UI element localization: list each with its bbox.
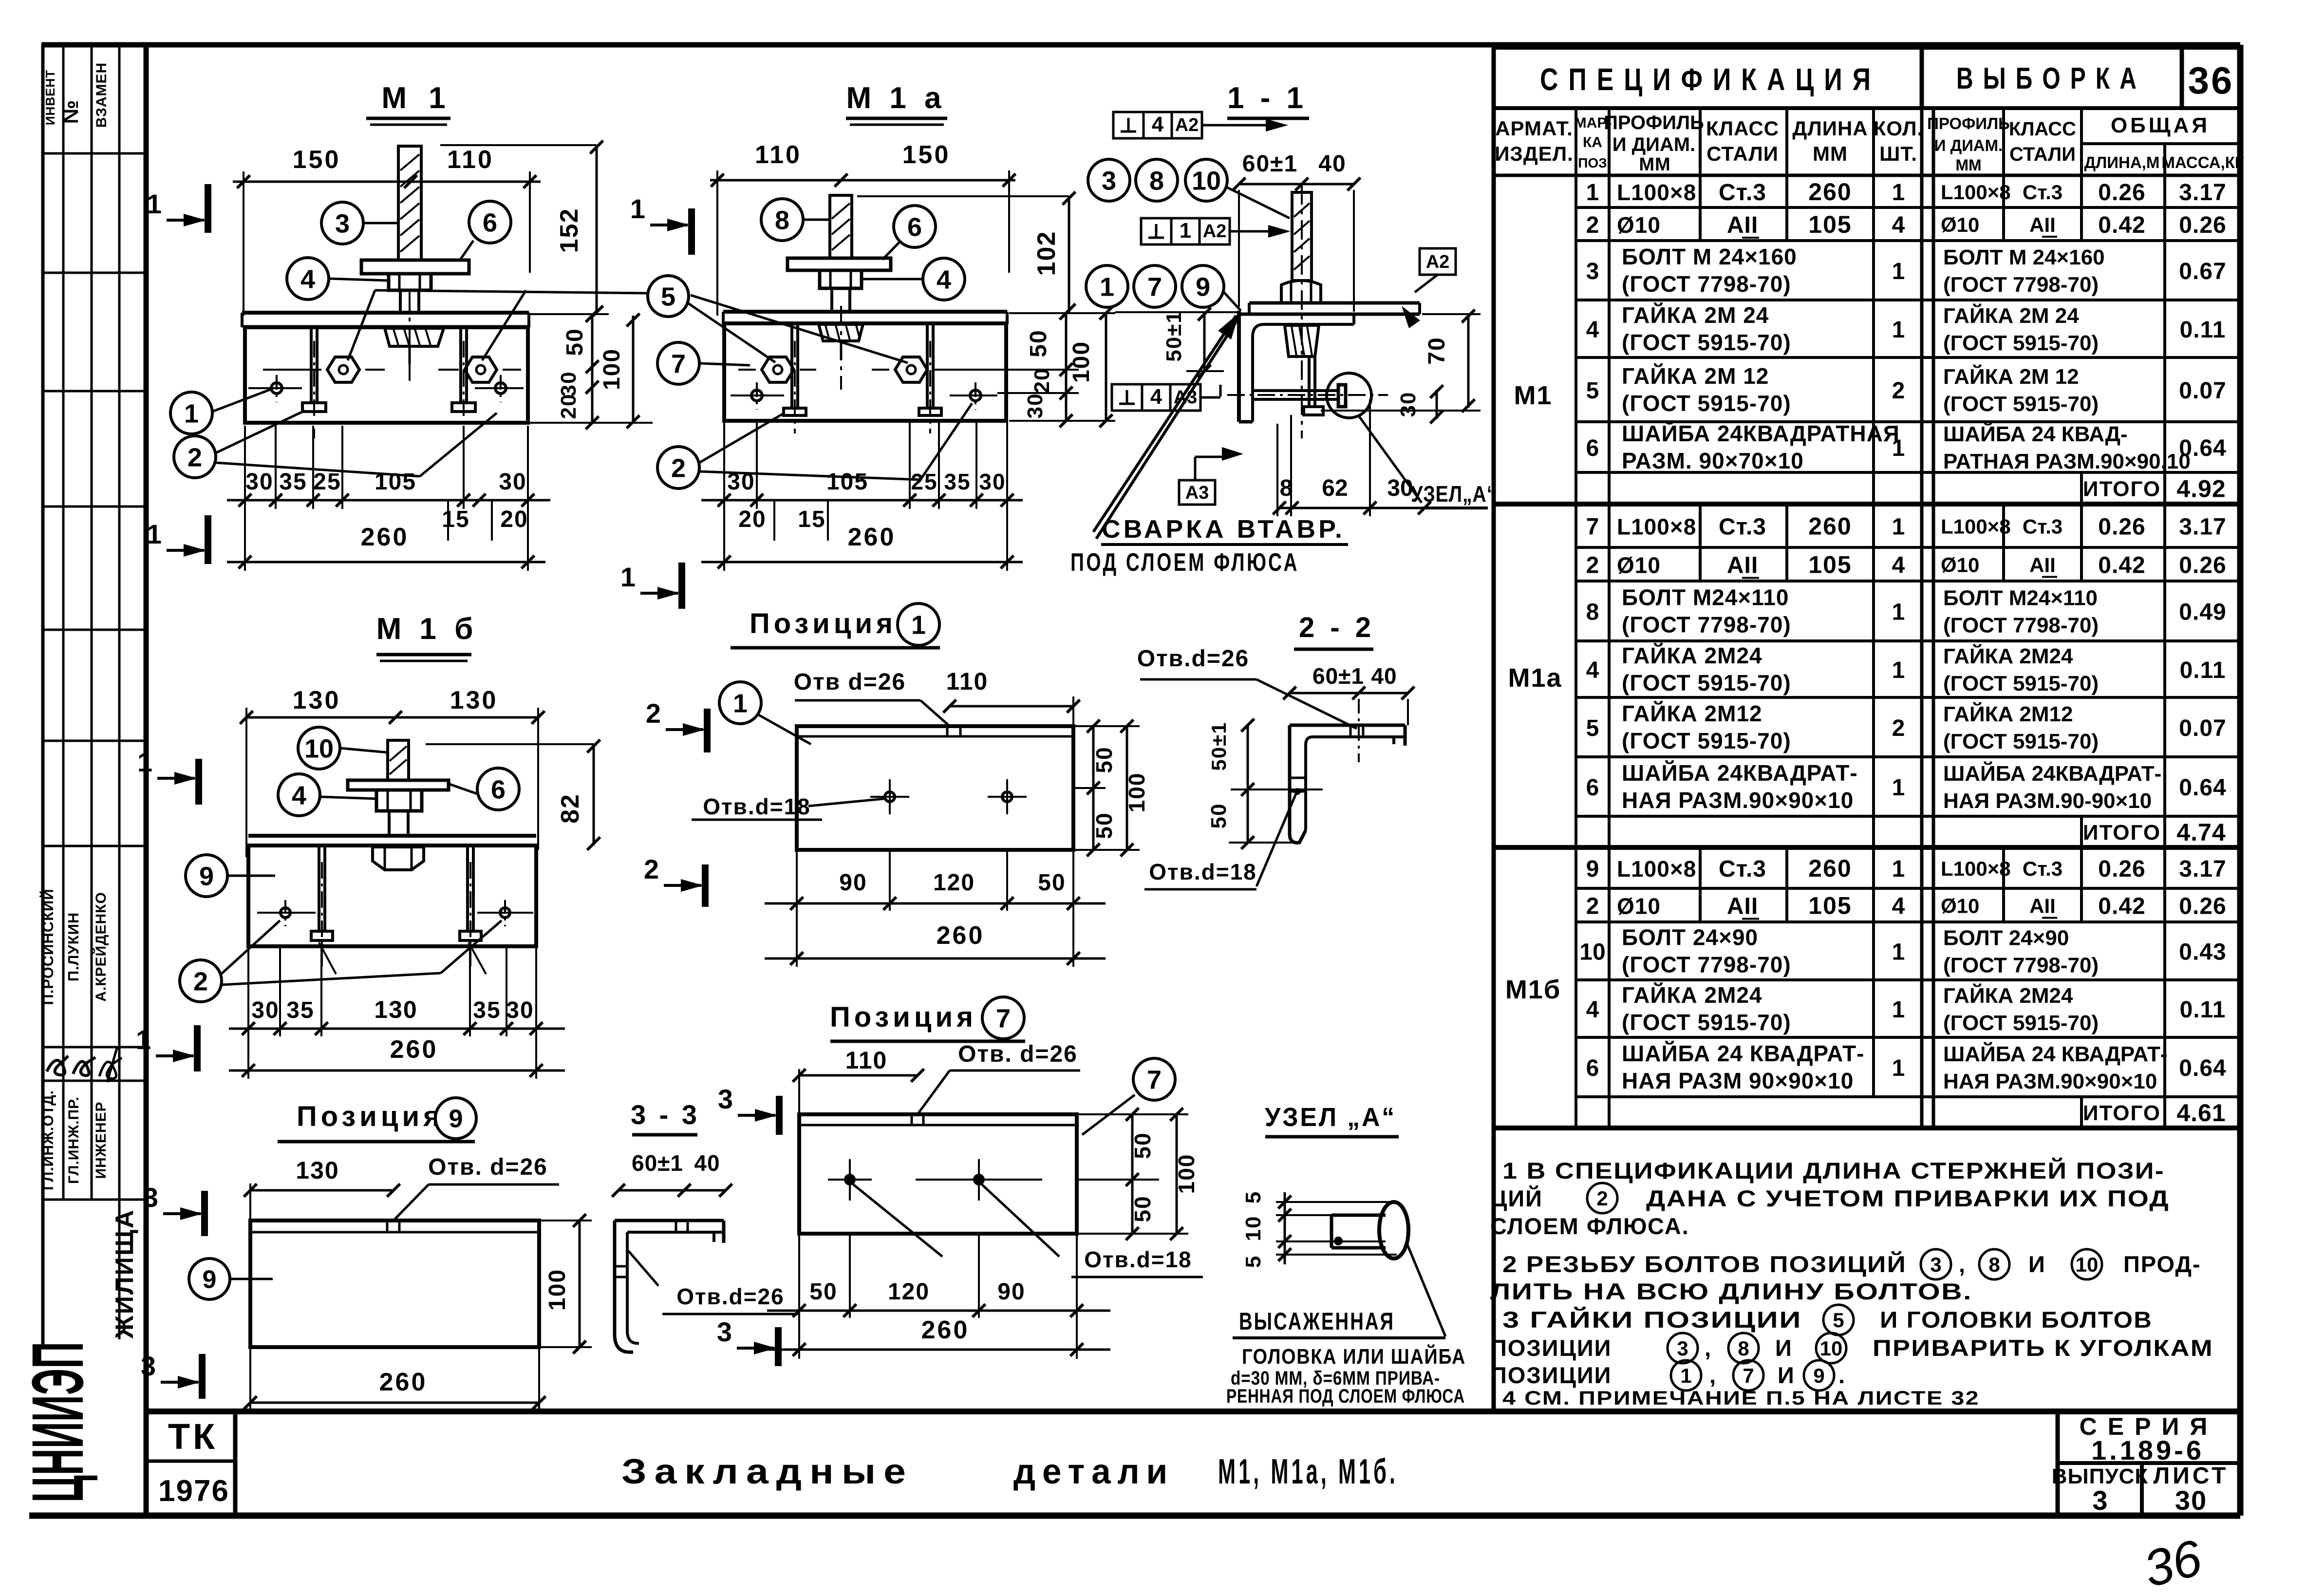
svg-text:4: 4 [1152, 113, 1164, 136]
svg-text:110: 110 [845, 1047, 888, 1074]
svg-text:Ст.3: Ст.3 [1719, 514, 1766, 540]
svg-text:30: 30 [557, 371, 581, 397]
svg-text:4 СМ. ПРИМЕЧАНИЕ П.5 НА ЛИСТЕ: 4 СМ. ПРИМЕЧАНИЕ П.5 НА ЛИСТЕ 32 [1502, 1388, 1980, 1409]
svg-text:30: 30 [1396, 392, 1420, 417]
svg-text:5: 5 [661, 282, 675, 311]
svg-text:100: 100 [1174, 1154, 1199, 1194]
svg-text:60±1: 60±1 [632, 1150, 683, 1176]
svg-text:6: 6 [1586, 435, 1599, 461]
svg-text:(ГОСТ 5915-70): (ГОСТ 5915-70) [1943, 331, 2099, 355]
svg-text:,: , [1959, 1251, 1966, 1277]
svg-text:Ст.3: Ст.3 [1719, 856, 1766, 882]
svg-text:(ГОСТ 7798-70): (ГОСТ 7798-70) [1943, 273, 2099, 297]
svg-text:1: 1 [733, 689, 748, 718]
svg-text:Отв d=26: Отв d=26 [794, 669, 906, 695]
svg-text:ПРОФИЛЬ: ПРОФИЛЬ [1927, 114, 2010, 132]
svg-text:15: 15 [442, 507, 469, 532]
svg-text:40: 40 [694, 1150, 720, 1176]
svg-text:ВЫСАЖЕННАЯ: ВЫСАЖЕННАЯ [1239, 1308, 1395, 1335]
svg-text:5: 5 [1241, 1191, 1265, 1203]
svg-text:0.64: 0.64 [2179, 1055, 2226, 1081]
svg-text:30: 30 [245, 469, 273, 495]
svg-text:Ø10: Ø10 [1941, 554, 1979, 577]
svg-text:105: 105 [1808, 551, 1852, 579]
svg-text:СВАРКА ВТАВР.: СВАРКА ВТАВР. [1102, 515, 1345, 544]
svg-text:2: 2 [193, 967, 208, 996]
svg-text:5: 5 [1586, 378, 1599, 404]
svg-text:2 РЕЗЬБУ БОЛТОВ ПОЗИЦИЙ: 2 РЕЗЬБУ БОЛТОВ ПОЗИЦИЙ [1502, 1251, 1907, 1277]
svg-text:АII: АII [2029, 213, 2056, 236]
svg-text:ШАЙБА 24КВАДРАТ-: ШАЙБА 24КВАДРАТ- [1622, 760, 1858, 786]
svg-text:ПРИВАРИТЬ К УГОЛКАМ: ПРИВАРИТЬ К УГОЛКАМ [1873, 1335, 2213, 1361]
svg-text:ИЗДЕЛ.: ИЗДЕЛ. [1495, 142, 1574, 165]
svg-text:9: 9 [1196, 272, 1210, 301]
svg-text:105: 105 [1808, 892, 1852, 920]
svg-text:0.26: 0.26 [2098, 856, 2145, 882]
svg-text:50: 50 [1038, 870, 1066, 896]
svg-text:25: 25 [911, 469, 937, 494]
svg-text:(ГОСТ 7798-70): (ГОСТ 7798-70) [1622, 612, 1791, 638]
svg-text:М 1 а: М 1 а [846, 81, 946, 115]
svg-text:КА: КА [1583, 134, 1602, 150]
svg-text:9: 9 [449, 1105, 463, 1133]
svg-text:60±1: 60±1 [1312, 663, 1364, 689]
svg-text:ДАНА С УЧЕТОМ ПРИВАРКИ ИХ ПОД: ДАНА С УЧЕТОМ ПРИВАРКИ ИХ ПОД [1646, 1185, 2170, 1211]
svg-text:2: 2 [1892, 378, 1905, 404]
svg-text:130: 130 [293, 686, 341, 714]
svg-text:(ГОСТ 7798-70): (ГОСТ 7798-70) [1622, 952, 1791, 977]
svg-text:ШТ.: ШТ. [1879, 142, 1917, 165]
svg-text:ПОД СЛОЕМ ФЛЮСА: ПОД СЛОЕМ ФЛЮСА [1070, 548, 1299, 577]
svg-text:0.64: 0.64 [2179, 435, 2226, 461]
svg-text:ВЫБОРКА: ВЫБОРКА [1956, 62, 2146, 95]
svg-text:1: 1 [620, 562, 636, 592]
svg-text:Ст.3: Ст.3 [2023, 181, 2062, 204]
svg-text:4: 4 [1892, 212, 1905, 238]
svg-text:(ГОСТ 5915-70): (ГОСТ 5915-70) [1943, 672, 2099, 695]
svg-text:10: 10 [1192, 166, 1221, 195]
svg-text:60±1: 60±1 [1242, 151, 1298, 177]
svg-text:10: 10 [1579, 939, 1605, 965]
svg-text:М 1 б: М 1 б [376, 612, 478, 646]
svg-text:0.49: 0.49 [2179, 600, 2226, 625]
svg-text:20: 20 [1030, 368, 1054, 394]
svg-text:(ГОСТ 5915-70): (ГОСТ 5915-70) [1943, 730, 2099, 753]
svg-text:35: 35 [473, 997, 501, 1023]
svg-text:9: 9 [1813, 1364, 1824, 1387]
svg-text:L100×8: L100×8 [1617, 514, 1696, 540]
svg-text:8: 8 [775, 206, 789, 235]
svg-text:20: 20 [500, 507, 528, 532]
svg-text:ПОЗИЦИИ: ПОЗИЦИИ [1490, 1362, 1612, 1388]
svg-text:НАЯ РАЗМ.90×90×10: НАЯ РАЗМ.90×90×10 [1622, 788, 1854, 813]
svg-text:3.17: 3.17 [2179, 856, 2226, 882]
svg-text:1: 1 [1180, 219, 1191, 243]
svg-text:130: 130 [296, 1157, 339, 1184]
svg-text:БОЛТ М24×110: БОЛТ М24×110 [1622, 585, 1789, 610]
svg-text:3: 3 [717, 1316, 732, 1347]
svg-text:ПРОФИЛЬ: ПРОФИЛЬ [1604, 112, 1704, 133]
svg-text:Закладные: Закладные [621, 1452, 914, 1491]
svg-text:30: 30 [251, 997, 279, 1023]
svg-text:1: 1 [1892, 939, 1905, 965]
svg-text:ГОЛОВКА ИЛИ ШАЙБА: ГОЛОВКА ИЛИ ШАЙБА [1242, 1344, 1466, 1369]
svg-text:ГАЙКА 2М 24: ГАЙКА 2М 24 [1622, 302, 1769, 328]
svg-text:Позиция: Позиция [750, 608, 897, 639]
svg-text:Отв.d=26: Отв.d=26 [1137, 646, 1249, 672]
svg-text:М1, М1а, М1б.: М1, М1а, М1б. [1218, 1452, 1398, 1491]
svg-text:БОЛТ М 24×160: БОЛТ М 24×160 [1622, 244, 1797, 269]
svg-text:ММ: ММ [1639, 154, 1670, 175]
svg-text:260: 260 [848, 523, 896, 551]
svg-text:4.92: 4.92 [2176, 475, 2226, 503]
svg-text:Позиция: Позиция [830, 1001, 977, 1033]
svg-text:3.17: 3.17 [2179, 180, 2226, 206]
svg-text:L100×8: L100×8 [1941, 857, 2011, 880]
svg-text:6: 6 [907, 212, 922, 242]
svg-text:ДЛИНА: ДЛИНА [1792, 117, 1868, 140]
svg-text:1: 1 [1892, 856, 1905, 882]
svg-text:62: 62 [1322, 475, 1348, 501]
svg-text:4: 4 [300, 264, 315, 294]
svg-text:3: 3 [1586, 259, 1599, 284]
svg-text:100: 100 [1124, 772, 1149, 813]
svg-text:Отв.d=26: Отв.d=26 [676, 1284, 785, 1309]
svg-text:СЛОЕМ ФЛЮСА.: СЛОЕМ ФЛЮСА. [1490, 1213, 1689, 1239]
svg-text:8: 8 [1738, 1337, 1749, 1360]
svg-text:0.26: 0.26 [2098, 514, 2145, 540]
svg-text:4.74: 4.74 [2176, 819, 2226, 846]
svg-text:ВЗАМЕН: ВЗАМЕН [94, 62, 110, 128]
svg-text:120: 120 [888, 1279, 930, 1305]
svg-text:3 - 3: 3 - 3 [631, 1099, 700, 1130]
svg-text:7: 7 [1147, 272, 1162, 301]
svg-text:(ГОСТ 7798-70): (ГОСТ 7798-70) [1943, 954, 2099, 977]
svg-text:ЖИЛИЩА: ЖИЛИЩА [111, 1209, 139, 1339]
svg-text:L100×8: L100×8 [1941, 515, 2011, 538]
svg-text:1: 1 [1892, 997, 1905, 1023]
svg-text:90: 90 [839, 870, 867, 896]
svg-text:ГАЙКА 2М24: ГАЙКА 2М24 [1943, 983, 2073, 1008]
svg-text:30: 30 [499, 469, 526, 495]
svg-text:ГАЙКА 2М 24: ГАЙКА 2М 24 [1943, 303, 2079, 328]
svg-text:5: 5 [1241, 1255, 1265, 1268]
svg-text:30: 30 [1023, 393, 1047, 419]
svg-text:Отв.d=18: Отв.d=18 [703, 794, 811, 819]
svg-text:1 В СПЕЦИФИКАЦИИ ДЛИНА СТЕРЖН: 1 В СПЕЦИФИКАЦИИ ДЛИНА СТЕРЖНЕЙ ПОЗИ- [1502, 1158, 2165, 1183]
svg-text:7: 7 [1586, 514, 1599, 540]
svg-text:100: 100 [1069, 341, 1094, 383]
svg-text:ШАЙБА 24КВАДРАТ-: ШАЙБА 24КВАДРАТ- [1943, 761, 2161, 786]
svg-text:260: 260 [921, 1316, 970, 1344]
svg-text:1: 1 [184, 399, 199, 428]
svg-text:3: 3 [2092, 1485, 2107, 1516]
svg-text:35: 35 [944, 469, 971, 494]
svg-text:М1: М1 [1514, 381, 1552, 410]
svg-text:1: 1 [1892, 259, 1905, 284]
svg-text:1: 1 [1892, 1055, 1905, 1081]
svg-text:260: 260 [390, 1035, 438, 1064]
svg-text:2: 2 [1892, 715, 1905, 741]
svg-text:3: 3 [718, 1084, 733, 1114]
svg-text:ГЛ.ИНЖ.ОТД.: ГЛ.ИНЖ.ОТД. [40, 1090, 56, 1190]
svg-text:8: 8 [1586, 600, 1599, 625]
svg-text:110: 110 [946, 668, 989, 695]
svg-text:2: 2 [644, 854, 659, 884]
svg-text:(ГОСТ 7798-70): (ГОСТ 7798-70) [1943, 614, 2099, 638]
svg-text:Ø10: Ø10 [1941, 213, 1979, 236]
svg-text:2: 2 [1586, 553, 1599, 579]
svg-text:П.ЛУКИН: П.ЛУКИН [65, 912, 82, 982]
svg-text:2: 2 [1596, 1187, 1608, 1210]
svg-text:30: 30 [2175, 1485, 2207, 1516]
svg-text:1: 1 [1100, 272, 1114, 301]
svg-text:АII: АII [2029, 895, 2056, 918]
svg-text:9: 9 [1586, 856, 1599, 882]
svg-text:М1б: М1б [1505, 975, 1561, 1004]
svg-text:105: 105 [826, 469, 868, 495]
svg-text:6: 6 [1586, 1055, 1599, 1081]
svg-text:8: 8 [1149, 166, 1164, 195]
svg-text:82: 82 [556, 793, 584, 824]
svg-text:3: 3 [141, 1351, 156, 1381]
svg-text:105: 105 [1808, 211, 1852, 238]
svg-text:50: 50 [562, 328, 588, 356]
svg-text:2: 2 [671, 453, 686, 483]
svg-text:6: 6 [491, 775, 506, 804]
svg-text:РЕННАЯ ПОД СЛОЕМ ФЛЮСА: РЕННАЯ ПОД СЛОЕМ ФЛЮСА [1226, 1386, 1465, 1407]
svg-text:8: 8 [1988, 1253, 2000, 1276]
svg-text:4: 4 [1586, 657, 1599, 683]
svg-text:0.42: 0.42 [2098, 894, 2145, 920]
svg-text:6: 6 [483, 208, 497, 237]
svg-text:№: № [59, 100, 83, 124]
svg-text:50: 50 [1091, 746, 1117, 773]
svg-text:А3: А3 [1185, 483, 1209, 503]
svg-text:260: 260 [1808, 513, 1852, 540]
svg-text:30: 30 [1387, 475, 1413, 501]
svg-text:1: 1 [137, 747, 152, 777]
svg-text:АРМАТ.: АРМАТ. [1495, 117, 1573, 140]
svg-text:100: 100 [599, 348, 625, 390]
svg-text:260: 260 [937, 921, 985, 950]
svg-text:5: 5 [1586, 715, 1599, 741]
svg-text:50±1: 50±1 [1207, 721, 1230, 770]
svg-text:ЦНИИЭП: ЦНИИЭП [17, 1342, 98, 1502]
svg-text:50±1: 50±1 [1162, 310, 1186, 362]
svg-text:1: 1 [1892, 180, 1905, 206]
svg-text:0.43: 0.43 [2179, 939, 2226, 965]
svg-text:30: 30 [979, 469, 1006, 494]
svg-text:(ГОСТ 5915-70): (ГОСТ 5915-70) [1622, 670, 1791, 695]
svg-text:4: 4 [1892, 553, 1905, 579]
svg-text:,: , [1709, 1362, 1717, 1388]
svg-text:ОБЩАЯ: ОБЩАЯ [2111, 113, 2210, 137]
svg-text:ИТОГО: ИТОГО [2083, 821, 2161, 845]
svg-text:ММ: ММ [1813, 142, 1848, 165]
svg-text:СТАЛИ: СТАЛИ [1706, 142, 1779, 165]
svg-text:105: 105 [375, 469, 416, 495]
svg-text:НАЯ РАЗМ 90×90×10: НАЯ РАЗМ 90×90×10 [1622, 1068, 1854, 1093]
svg-text:102: 102 [1032, 231, 1061, 276]
svg-text:И: И [2028, 1251, 2046, 1277]
svg-text:20: 20 [557, 394, 581, 419]
svg-text:1: 1 [1892, 435, 1905, 461]
svg-text:ДЛИНА,М: ДЛИНА,М [2084, 153, 2160, 171]
svg-text:4: 4 [1586, 317, 1599, 343]
svg-text:6: 6 [1586, 775, 1599, 801]
svg-text:Позиция: Позиция [297, 1101, 444, 1132]
svg-text:(ГОСТ 5915-70): (ГОСТ 5915-70) [1622, 330, 1791, 355]
svg-text:ИНЖЕНЕР: ИНЖЕНЕР [93, 1101, 109, 1179]
svg-text:Ø10: Ø10 [1617, 212, 1661, 238]
svg-text:35: 35 [286, 997, 314, 1023]
svg-text:(ГОСТ 5915-70): (ГОСТ 5915-70) [1943, 1011, 2099, 1035]
svg-text:3: 3 [1930, 1253, 1941, 1276]
svg-text:ГАЙКА 2М24: ГАЙКА 2М24 [1943, 643, 2073, 668]
svg-text:4: 4 [1892, 894, 1905, 920]
svg-text:30: 30 [506, 997, 534, 1023]
svg-text:70: 70 [1424, 337, 1450, 364]
svg-text:И ДИАМ.: И ДИАМ. [1934, 136, 2003, 154]
svg-text:АII: АII [1727, 212, 1758, 238]
svg-text:7: 7 [1147, 1065, 1162, 1094]
svg-text:АII: АII [1727, 894, 1758, 920]
svg-text:1: 1 [1892, 514, 1905, 540]
svg-text:2: 2 [1586, 212, 1599, 238]
svg-text:НАЯ РАЗМ.90-90×10: НАЯ РАЗМ.90-90×10 [1943, 789, 2152, 813]
svg-text:СТАЛИ: СТАЛИ [2009, 144, 2076, 165]
svg-text:ГЛ.ИНЖ.ПР.: ГЛ.ИНЖ.ПР. [66, 1096, 82, 1184]
svg-text:10: 10 [1241, 1216, 1265, 1241]
svg-text:И: И [1778, 1362, 1795, 1388]
svg-text:25: 25 [313, 469, 341, 495]
svg-text:50: 50 [809, 1279, 837, 1305]
svg-text:4: 4 [292, 781, 306, 810]
svg-text:1: 1 [1892, 657, 1905, 683]
svg-text:(ГОСТ 7798-70): (ГОСТ 7798-70) [1622, 271, 1791, 297]
svg-text:1.189-6: 1.189-6 [2091, 1435, 2204, 1465]
svg-text:7: 7 [1743, 1364, 1754, 1387]
svg-text:L100×8: L100×8 [1617, 180, 1696, 205]
svg-text:1: 1 [147, 188, 162, 219]
svg-text:ШАЙБА 24 КВАД-: ШАЙБА 24 КВАД- [1943, 421, 2128, 446]
svg-text:А2: А2 [1426, 252, 1450, 272]
svg-text:КОЛ.: КОЛ. [1874, 117, 1923, 140]
svg-text:L100×8: L100×8 [1941, 181, 2011, 204]
svg-text:1: 1 [911, 610, 926, 639]
svg-text:(ГОСТ 5915-70): (ГОСТ 5915-70) [1943, 392, 2099, 416]
svg-text:ГАЙКА 2М12: ГАЙКА 2М12 [1943, 701, 2073, 726]
svg-text:50: 50 [1026, 329, 1051, 357]
svg-text:150: 150 [902, 141, 951, 169]
svg-text:Отв. d=26: Отв. d=26 [428, 1154, 548, 1180]
svg-text:МАССА,КГ: МАССА,КГ [2161, 153, 2244, 171]
svg-text:ПОЗИЦИИ: ПОЗИЦИИ [1490, 1335, 1612, 1361]
svg-text:ИНВЕНТ: ИНВЕНТ [43, 70, 57, 125]
svg-text:3: 3 [143, 1182, 158, 1213]
svg-text:1 - 1: 1 - 1 [1227, 81, 1307, 115]
svg-text:35: 35 [279, 469, 307, 495]
svg-text:1: 1 [1586, 180, 1599, 206]
svg-text:А2: А2 [1203, 221, 1227, 242]
svg-text:260: 260 [379, 1368, 428, 1396]
svg-text:7: 7 [996, 1004, 1011, 1033]
svg-text:260: 260 [1808, 178, 1852, 206]
svg-text:ШАЙБА 24КВАДРАТНАЯ: ШАЙБА 24КВАДРАТНАЯ [1622, 421, 1900, 446]
svg-text:БОЛТ 24×90: БОЛТ 24×90 [1943, 926, 2069, 950]
svg-text:ШАЙБА 24 КВАДРАТ-: ШАЙБА 24 КВАДРАТ- [1622, 1041, 1864, 1066]
svg-text:ГАЙКА 2М 12: ГАЙКА 2М 12 [1622, 363, 1769, 389]
svg-text:ГАЙКА 2М24: ГАЙКА 2М24 [1622, 982, 1762, 1008]
svg-text:5: 5 [1833, 1309, 1844, 1332]
svg-text:90: 90 [997, 1279, 1025, 1305]
svg-text:АII: АII [2029, 554, 2056, 577]
svg-text:СПЕЦИФИКАЦИЯ: СПЕЦИФИКАЦИЯ [1540, 62, 1881, 97]
svg-text:4: 4 [1150, 385, 1162, 409]
svg-text:А.КРЕЙДЕНКО: А.КРЕЙДЕНКО [93, 892, 109, 1002]
svg-text:20: 20 [738, 507, 766, 532]
svg-text:Ø10: Ø10 [1617, 553, 1661, 578]
svg-text:0.26: 0.26 [2098, 180, 2145, 206]
svg-text:0.26: 0.26 [2179, 894, 2226, 920]
svg-text:УЗЕЛ „А“: УЗЕЛ „А“ [1265, 1103, 1396, 1132]
svg-text:0.11: 0.11 [2180, 657, 2226, 683]
svg-text:КЛАСС: КЛАСС [1706, 117, 1779, 140]
svg-text:50: 50 [1091, 812, 1117, 839]
svg-text:М 1: М 1 [381, 81, 452, 115]
svg-text:130: 130 [374, 996, 417, 1023]
svg-text:130: 130 [450, 686, 498, 714]
svg-text:ИТОГО: ИТОГО [2083, 1101, 2161, 1125]
svg-text:БОЛТ М24×110: БОЛТ М24×110 [1943, 586, 2098, 610]
svg-text:Ст.3: Ст.3 [2023, 515, 2062, 538]
svg-text:10: 10 [304, 734, 334, 763]
svg-text:50: 50 [1207, 803, 1231, 829]
svg-text:10: 10 [1820, 1337, 1843, 1360]
svg-text:Ø10: Ø10 [1617, 894, 1661, 919]
svg-text:БОЛТ 24×90: БОЛТ 24×90 [1622, 925, 1758, 950]
svg-text:Ø10: Ø10 [1941, 895, 1979, 918]
svg-text:Ст.3: Ст.3 [2023, 857, 2062, 880]
svg-text:ИТОГО: ИТОГО [2083, 477, 2161, 501]
svg-text:152: 152 [555, 208, 583, 253]
svg-text:И ДИАМ.: И ДИАМ. [1612, 134, 1695, 155]
svg-text:.: . [1838, 1362, 1846, 1388]
svg-text:0.67: 0.67 [2179, 259, 2226, 284]
svg-text:1: 1 [1892, 600, 1905, 625]
svg-text:1: 1 [1892, 317, 1905, 343]
svg-text:36: 36 [2188, 59, 2234, 102]
svg-text:ГАЙКА 2М12: ГАЙКА 2М12 [1622, 701, 1762, 726]
svg-text:ММ: ММ [1955, 156, 1981, 174]
svg-text:3: 3 [1677, 1337, 1688, 1360]
svg-text:БОЛТ М 24×160: БОЛТ М 24×160 [1943, 245, 2105, 269]
svg-text:(ГОСТ 5915-70): (ГОСТ 5915-70) [1622, 391, 1791, 416]
svg-text:0.64: 0.64 [2179, 775, 2226, 801]
svg-text:1: 1 [630, 193, 645, 224]
svg-text:40: 40 [1371, 663, 1397, 689]
svg-text:1: 1 [136, 1024, 151, 1055]
svg-text:0.42: 0.42 [2098, 212, 2145, 238]
svg-text:3.17: 3.17 [2179, 514, 2226, 540]
svg-text:ШАЙБА 24 КВАДРАТ-: ШАЙБА 24 КВАДРАТ- [1943, 1041, 2168, 1066]
svg-text:50: 50 [1130, 1195, 1155, 1222]
svg-text:2: 2 [1586, 894, 1599, 920]
svg-text:0.11: 0.11 [2180, 997, 2226, 1023]
svg-text:УЗЕЛ„А“: УЗЕЛ„А“ [1411, 481, 1497, 507]
svg-text:Отв.d=18: Отв.d=18 [1149, 859, 1257, 884]
